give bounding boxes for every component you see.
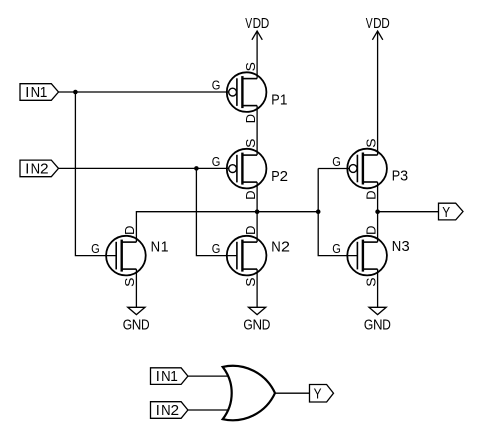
wire P1 drain to P2 source [256,106,258,156]
svg-text:S: S [244,278,258,287]
svg-text:P: P [271,169,279,185]
svg-text:G: G [332,242,341,256]
svg-text:N: N [271,240,281,256]
ground GND under N1 [128,307,145,314]
junction node NOR output at P2/N2 drains [255,209,260,214]
svg-text:3: 3 [400,169,408,185]
svg-text:S: S [244,62,258,71]
wire to output flag Y [378,211,439,213]
svg-text:D: D [253,16,261,32]
wire VDD to P1 source [256,31,258,79]
svg-text:D: D [244,226,258,235]
svg-text:D: D [244,114,258,123]
svg-text:S: S [244,139,258,148]
svg-text:D: D [261,16,270,32]
svg-text:Y: Y [442,205,450,221]
svg-text:N: N [253,318,263,334]
junction node Y [375,209,380,214]
transistor P2 (PMOS) [227,149,267,189]
wire P2 drain down to output node [256,182,258,212]
input label IN2 (gate drawing) [151,402,188,419]
svg-text:I: I [156,403,160,419]
wire IN1 down to N1 gate [75,92,116,256]
svg-text:N: N [373,318,383,334]
wire N2 drain up [256,212,258,242]
svg-text:G: G [332,155,341,169]
svg-text:S: S [364,139,378,148]
svg-text:2: 2 [40,161,49,177]
ground GND under N3 [369,307,386,314]
transistor P1 (PMOS) [227,72,267,112]
wire N3 drain up [377,212,379,242]
wire N2 source to GND [256,269,258,307]
OR gate U1 [223,366,275,420]
svg-text:2: 2 [281,240,290,256]
svg-text:D: D [382,318,391,334]
wire N3 source to GND [377,269,379,307]
svg-text:1: 1 [40,85,48,101]
svg-text:Y: Y [314,387,322,403]
svg-text:S: S [364,278,378,287]
svg-text:D: D [123,226,137,235]
svg-text:S: S [123,278,137,287]
svg-text:G: G [212,155,221,169]
svg-text:G: G [91,242,100,256]
svg-text:G: G [212,78,221,92]
svg-text:D: D [364,226,378,235]
wire NOR output to P3/N3 gates [318,169,357,256]
wire IN1 to P1 gate [59,91,229,93]
svg-text:D: D [364,190,378,199]
wire IN1 to OR gate input [188,375,229,377]
wire IN2 down to N2 gate [196,168,237,255]
svg-text:D: D [262,318,271,334]
wire IN2 to P2 gate [59,167,229,169]
svg-text:N: N [161,369,171,385]
svg-text:I: I [25,85,29,101]
svg-text:2: 2 [280,169,288,185]
wire OR gate output to Y [275,392,310,394]
svg-text:I: I [25,161,29,177]
svg-text:D: D [244,191,258,200]
svg-text:1: 1 [280,92,288,108]
svg-text:2: 2 [171,403,180,419]
wire P3 drain down [377,182,379,212]
output label Y (gate drawing) [310,385,334,403]
svg-text:V: V [366,16,373,32]
power symbol VDD (left) [252,31,262,40]
power symbol VDD (right) [372,31,382,40]
wire N1 drain up and right (NOR output net) [136,212,318,242]
svg-text:1: 1 [161,240,169,256]
svg-text:N: N [151,240,161,256]
svg-text:G: G [212,242,221,256]
svg-text:N: N [132,318,142,334]
wire P3 gate stub [318,168,349,170]
svg-text:I: I [156,369,160,385]
junction node IN2 [194,166,199,171]
ground GND under N2 [249,307,266,314]
transistor N3 (NMOS) [347,236,387,276]
svg-text:D: D [373,16,381,32]
input label IN1 (gate drawing) [151,368,188,385]
wire N1 source to GND [135,269,137,307]
svg-text:G: G [364,318,373,334]
svg-text:N: N [31,161,40,177]
svg-text:G: G [123,318,132,334]
svg-text:N: N [31,85,40,101]
junction node inverter input [316,209,321,214]
input label IN1 [20,84,59,101]
svg-text:3: 3 [402,239,410,255]
svg-text:N: N [161,403,171,419]
svg-text:N: N [392,239,402,255]
transistor N2 (NMOS) [227,236,267,276]
svg-text:V: V [245,16,252,32]
svg-text:D: D [141,318,150,334]
transistor P3 (PMOS) [347,149,387,189]
transistor N1 (NMOS) [106,236,146,276]
svg-text:P: P [271,92,279,108]
output label Y [439,203,464,220]
svg-text:D: D [381,16,390,32]
svg-text:P: P [392,169,400,185]
wire IN2 to OR gate input [188,409,229,411]
wire VDD to P3 source [377,31,379,155]
junction node IN1 [73,90,78,95]
input label IN2 [20,160,59,177]
svg-text:G: G [243,318,252,334]
svg-text:1: 1 [170,369,178,385]
